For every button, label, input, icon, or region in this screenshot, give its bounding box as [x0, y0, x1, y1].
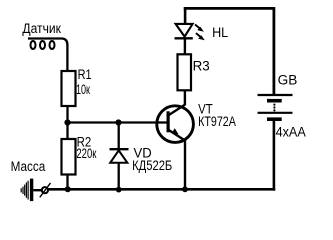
- wire emitter down to ground rail: [184, 140, 186, 190]
- svg-text:GB: GB: [278, 73, 298, 88]
- wire R3 top to LED cathode: [184, 39, 186, 55]
- svg-text:КД522Б: КД522Б: [132, 158, 172, 173]
- svg-text:КТ972А: КТ972А: [198, 114, 236, 129]
- wire node B down to diode: [118, 123, 120, 150]
- node junction dot diode/rail: [116, 187, 122, 193]
- LED HL: [175, 9, 229, 40]
- svg-text:4xAA: 4xAA: [276, 124, 306, 139]
- resistor R1: [62, 67, 92, 106]
- node B junction dot (diode top): [115, 119, 121, 125]
- battery GB 4xAA: [258, 73, 306, 140]
- ground label "Масса": [11, 159, 46, 174]
- transistor VT КТ972А: [156, 101, 236, 142]
- resistor R2: [62, 134, 97, 174]
- wire base: node A to transistor base: [68, 121, 167, 123]
- svg-text:R3: R3: [193, 58, 210, 73]
- inductor L1 sensor coil: [28, 39, 67, 71]
- wire diode anode to ground rail: [118, 163, 120, 190]
- wire bottom ground rail: [48, 188, 275, 191]
- svg-text:Масса: Масса: [11, 159, 46, 174]
- svg-text:R1: R1: [78, 67, 92, 82]
- node A junction dot (R1/R2/base): [64, 119, 70, 125]
- node junction dot R2/rail: [65, 186, 71, 192]
- ground chassis symbol with connector: [21, 179, 50, 202]
- svg-text:220к: 220к: [76, 146, 96, 161]
- svg-text:Датчик: Датчик: [22, 21, 61, 36]
- node junction dot emitter/rail: [182, 186, 188, 192]
- diode VD КД522Б: [110, 145, 173, 173]
- wire R2 bottom to ground rail: [66, 175, 68, 190]
- resistor R3: [178, 54, 210, 90]
- svg-text:HL: HL: [212, 25, 229, 40]
- wire top rail and right branch to battery: [185, 8, 274, 94]
- wire collector up to R3: [184, 91, 186, 105]
- svg-text:10к: 10к: [76, 82, 90, 97]
- sensor label "Датчик": [22, 21, 61, 36]
- wire R1 bottom to node A: [66, 106, 68, 139]
- wire battery minus down to ground rail: [273, 121, 276, 191]
